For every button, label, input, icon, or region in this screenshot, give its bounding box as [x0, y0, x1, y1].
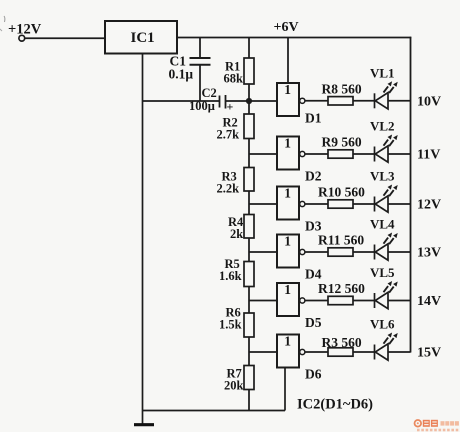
svg-text:R11 560: R11 560: [318, 233, 364, 248]
ground: [134, 423, 154, 426]
svg-text:1: 1: [284, 334, 291, 349]
svg-text:IC2(D1~D6): IC2(D1~D6): [297, 397, 373, 413]
svg-text:68k: 68k: [224, 72, 244, 86]
wire R8 to VL1: [353, 100, 375, 102]
svg-text:1: 1: [284, 234, 291, 249]
svg-text:D3: D3: [305, 219, 322, 234]
wire R10 to VL3: [353, 203, 375, 205]
gate D5: [277, 282, 322, 330]
wire ground horizontal to C2: [142, 100, 220, 102]
resistor R8: [322, 82, 362, 106]
wire D6 output: [305, 351, 328, 353]
svg-text:1: 1: [284, 136, 291, 151]
resistor R11: [318, 233, 364, 257]
LED VL3: [370, 169, 398, 213]
wire divider to D5 input: [249, 300, 277, 302]
svg-text:1.6k: 1.6k: [219, 269, 242, 283]
svg-text:VL5: VL5: [370, 265, 395, 280]
LED VL4: [370, 217, 398, 261]
svg-text:VL2: VL2: [370, 119, 395, 134]
svg-text:+12V: +12V: [8, 22, 42, 38]
op-amp U1 gate D1: [277, 82, 322, 125]
wire divider to D6 input: [249, 351, 277, 353]
svg-text:10V: 10V: [417, 95, 441, 110]
svg-text:D4: D4: [305, 267, 322, 282]
resistor R9: [322, 135, 362, 159]
capacitor C1: [169, 38, 211, 102]
resistor R7: [224, 352, 254, 411]
wire C2 to node A: [226, 100, 250, 102]
wire VL6 to rail: [388, 351, 411, 353]
gate D3: [277, 186, 322, 234]
wire divider to D3 input: [249, 203, 277, 205]
svg-text:1: 1: [284, 186, 291, 201]
resistor R6: [219, 301, 254, 353]
capacitor C2: [189, 86, 234, 114]
wire VL1 to rail: [388, 100, 411, 102]
LED VL6: [370, 317, 398, 361]
wire bottom ground bus: [142, 410, 285, 412]
wire +6V rail: [177, 37, 411, 39]
wire node A to D1 input: [249, 100, 277, 102]
terminal +12V: [0, 16, 42, 41]
gate D4: [277, 234, 322, 282]
wire divider to D4 input: [249, 251, 277, 253]
svg-text:2.7k: 2.7k: [217, 128, 240, 142]
wire D5 output: [305, 300, 328, 302]
wire VL3 to rail: [388, 203, 411, 205]
svg-text:+6V: +6V: [274, 20, 299, 35]
svg-text:11V: 11V: [417, 148, 440, 163]
resistor R10: [318, 185, 365, 209]
wire D3 output: [305, 203, 328, 205]
resistor R5: [219, 252, 254, 301]
wire right vertical rail: [410, 37, 412, 353]
wire VL4 to rail: [388, 251, 411, 253]
svg-text:1: 1: [284, 282, 291, 297]
gate D2: [277, 136, 322, 184]
svg-text:13V: 13V: [417, 246, 441, 261]
wire R12 to VL5: [353, 300, 375, 302]
svg-text:100μ: 100μ: [189, 99, 215, 113]
svg-text:0.1μ: 0.1μ: [169, 67, 194, 82]
wire +6V to D1 power pin: [287, 38, 289, 84]
svg-text:R3 560: R3 560: [322, 335, 362, 350]
LED VL2: [370, 119, 398, 163]
svg-text:VL1: VL1: [370, 66, 395, 81]
svg-text:VL3: VL3: [370, 169, 395, 184]
wire R3 to VL6: [353, 351, 375, 353]
resistor R3: [217, 154, 255, 204]
svg-text:R10 560: R10 560: [318, 185, 365, 200]
wire D2 output: [305, 153, 328, 155]
svg-text:15V: 15V: [417, 346, 441, 361]
resistor R3 560: [322, 335, 362, 356]
svg-text:20k: 20k: [224, 379, 244, 393]
svg-text:R8 560: R8 560: [322, 82, 362, 97]
svg-text:D6: D6: [305, 367, 322, 382]
wire VL2 to rail: [388, 153, 411, 155]
gate D6: [277, 334, 322, 382]
node A junction dot: [246, 98, 252, 104]
svg-text:D2: D2: [305, 169, 322, 184]
svg-text:12V: 12V: [417, 198, 441, 213]
svg-text:D1: D1: [305, 111, 322, 126]
watermark logo: [415, 420, 459, 432]
svg-text:VL4: VL4: [370, 217, 395, 232]
IC1: [105, 21, 177, 54]
wire R11 to VL4: [353, 251, 375, 253]
wire D4 output: [305, 251, 328, 253]
wire D6 ground pin: [284, 367, 286, 411]
svg-text:VL6: VL6: [370, 317, 395, 332]
LED VL5: [370, 265, 398, 309]
resistor R2: [217, 101, 255, 154]
wire D1 output: [305, 100, 328, 102]
svg-text:1: 1: [284, 82, 291, 97]
svg-text:D5: D5: [305, 315, 322, 330]
svg-text:14V: 14V: [417, 294, 441, 309]
svg-text:2.2k: 2.2k: [217, 182, 240, 196]
wire VL5 to rail: [388, 300, 411, 302]
wire input from +12V to IC1: [25, 37, 105, 39]
wire IC1 ground pin down left side: [142, 54, 144, 425]
resistor R1: [224, 38, 255, 102]
svg-text:2k: 2k: [230, 227, 243, 241]
svg-text:R12 560: R12 560: [318, 281, 365, 296]
svg-text:1.5k: 1.5k: [219, 318, 242, 332]
svg-text:R9 560: R9 560: [322, 135, 362, 150]
LED VL1: [370, 66, 398, 110]
resistor R4: [228, 204, 254, 252]
wire divider to D2 input: [249, 153, 277, 155]
svg-text:IC1: IC1: [131, 30, 155, 46]
wire R9 to VL2: [353, 153, 375, 155]
resistor R12: [318, 281, 365, 305]
